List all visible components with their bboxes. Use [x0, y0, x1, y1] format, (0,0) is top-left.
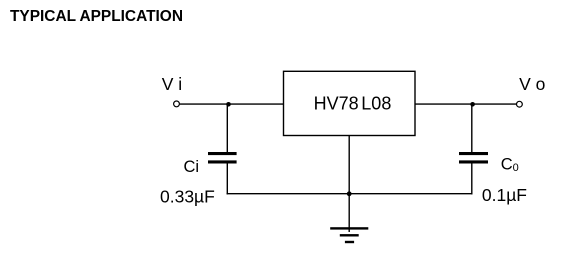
svg-text:TYPICAL APPLICATION: TYPICAL APPLICATION	[10, 8, 183, 25]
svg-text:Ci: Ci	[184, 158, 200, 176]
svg-text:V i: V i	[162, 74, 182, 94]
svg-text:L08: L08	[361, 93, 391, 113]
svg-text:C: C	[501, 156, 513, 174]
svg-text:0.33µF: 0.33µF	[160, 187, 215, 207]
svg-text:V o: V o	[519, 74, 545, 94]
svg-text:0: 0	[513, 162, 519, 174]
svg-text:HV78: HV78	[314, 93, 359, 113]
svg-text:0.1µF: 0.1µF	[482, 185, 527, 205]
